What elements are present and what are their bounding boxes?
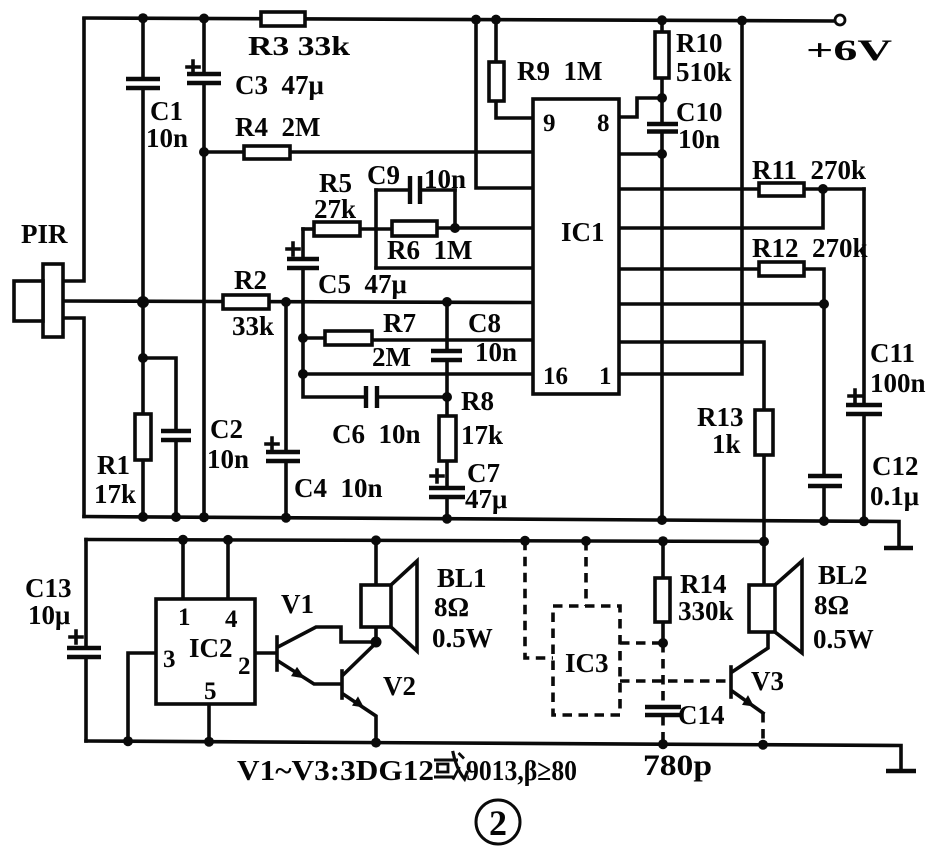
svg-text:C14: C14 bbox=[678, 700, 725, 730]
svg-text:R3 33k: R3 33k bbox=[248, 31, 350, 61]
svg-text:V1~V3:3DG12: V1~V3:3DG12 bbox=[237, 755, 434, 787]
svg-text:9013,β≥80: 9013,β≥80 bbox=[466, 755, 577, 787]
svg-text:R13: R13 bbox=[697, 402, 744, 432]
svg-text:R11 270k: R11 270k bbox=[752, 155, 866, 185]
svg-text:R4 2M: R4 2M bbox=[235, 112, 320, 142]
svg-text:3: 3 bbox=[163, 646, 176, 673]
svg-text:10n: 10n bbox=[678, 124, 720, 154]
svg-text:1k: 1k bbox=[712, 429, 741, 459]
svg-text:16: 16 bbox=[543, 363, 568, 390]
svg-text:C6 10n: C6 10n bbox=[332, 419, 421, 449]
svg-text:R2: R2 bbox=[234, 265, 267, 295]
svg-text:PIR: PIR bbox=[21, 219, 68, 249]
svg-text:8Ω: 8Ω bbox=[434, 592, 469, 622]
svg-text:IC1: IC1 bbox=[561, 217, 605, 247]
svg-text:2M: 2M bbox=[372, 342, 411, 372]
svg-text:0.5W: 0.5W bbox=[813, 624, 874, 654]
svg-text:R12 270k: R12 270k bbox=[752, 233, 868, 263]
svg-text:R10: R10 bbox=[676, 28, 723, 58]
svg-text:2: 2 bbox=[238, 653, 251, 680]
svg-text:C12: C12 bbox=[872, 451, 919, 481]
svg-text:C1: C1 bbox=[150, 96, 183, 126]
svg-text:IC2: IC2 bbox=[189, 633, 233, 663]
svg-text:R1: R1 bbox=[97, 450, 130, 480]
svg-text:100n: 100n bbox=[870, 368, 926, 398]
svg-text:0.5W: 0.5W bbox=[432, 623, 493, 653]
svg-text:C13: C13 bbox=[25, 573, 72, 603]
svg-text:17k: 17k bbox=[94, 479, 136, 509]
svg-text:C5 47μ: C5 47μ bbox=[318, 269, 407, 299]
svg-text:4: 4 bbox=[225, 606, 238, 633]
svg-text:V1: V1 bbox=[281, 589, 314, 619]
svg-text:C2: C2 bbox=[210, 414, 243, 444]
svg-text:C10: C10 bbox=[676, 97, 723, 127]
svg-text:10n: 10n bbox=[475, 337, 517, 367]
svg-text:780p: 780p bbox=[643, 749, 712, 782]
svg-text:9: 9 bbox=[543, 110, 556, 137]
svg-text:510k: 510k bbox=[676, 57, 732, 87]
svg-text:0.1μ: 0.1μ bbox=[870, 481, 919, 511]
svg-text:R14: R14 bbox=[680, 569, 727, 599]
svg-text:C11: C11 bbox=[870, 338, 915, 368]
svg-text:1: 1 bbox=[178, 604, 191, 631]
svg-text:10n: 10n bbox=[424, 164, 466, 194]
svg-text:10n: 10n bbox=[207, 444, 249, 474]
svg-text:33k: 33k bbox=[232, 311, 274, 341]
svg-text:V3: V3 bbox=[751, 666, 784, 696]
svg-text:BL2: BL2 bbox=[818, 560, 868, 590]
svg-text:47μ: 47μ bbox=[465, 484, 507, 514]
svg-text:1: 1 bbox=[599, 363, 612, 390]
svg-text:C3 47μ: C3 47μ bbox=[235, 70, 324, 100]
svg-text:+6V: +6V bbox=[806, 34, 893, 67]
svg-text:C8: C8 bbox=[468, 308, 501, 338]
svg-text:C4 10n: C4 10n bbox=[294, 473, 383, 503]
svg-text:R8: R8 bbox=[461, 386, 494, 416]
svg-text:8Ω: 8Ω bbox=[814, 590, 849, 620]
svg-text:5: 5 bbox=[204, 678, 217, 705]
svg-text:10n: 10n bbox=[146, 123, 188, 153]
svg-text:BL1: BL1 bbox=[437, 563, 487, 593]
svg-text:17k: 17k bbox=[461, 420, 503, 450]
svg-text:V2: V2 bbox=[383, 671, 416, 701]
svg-text:330k: 330k bbox=[678, 596, 734, 626]
svg-text:2: 2 bbox=[489, 803, 507, 843]
svg-text:R6 1M: R6 1M bbox=[387, 235, 472, 265]
svg-text:R7: R7 bbox=[383, 308, 416, 338]
svg-text:10μ: 10μ bbox=[28, 600, 70, 630]
svg-text:8: 8 bbox=[597, 110, 610, 137]
svg-text:R9 1M: R9 1M bbox=[517, 56, 602, 86]
svg-text:IC3: IC3 bbox=[565, 648, 609, 678]
svg-text:27k: 27k bbox=[314, 194, 356, 224]
svg-text:C9: C9 bbox=[367, 160, 400, 190]
